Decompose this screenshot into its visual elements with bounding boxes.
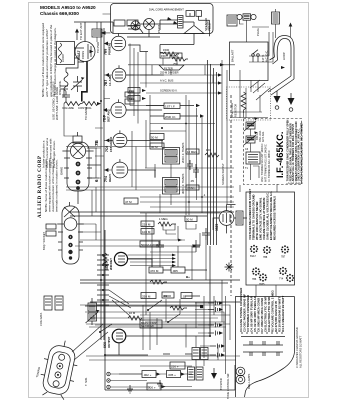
loop leads xyxy=(268,57,294,95)
left edge drop wire xyxy=(64,104,73,137)
svg-text:GANG CLOSED. ALL VOLTAGES D.C.: GANG CLOSED. ALL VOLTAGES D.C. xyxy=(266,192,270,240)
boxed label .01 xyxy=(162,292,174,298)
avc long wires xyxy=(66,187,234,190)
electrolytic capacitor C8 xyxy=(208,301,218,306)
tube V8 6K6 output (bold ring) xyxy=(112,329,126,343)
note paragraph (rotated service note, top left) xyxy=(41,23,57,97)
socket voltage chart box xyxy=(246,192,295,285)
tube base layout (top view, left) xyxy=(60,132,94,204)
svg-text:PILOT: PILOT xyxy=(157,25,161,33)
cathode thick wire xyxy=(81,61,88,102)
ballast block xyxy=(236,211,243,225)
left label box SEC xyxy=(128,96,140,102)
svg-text:6. ROCK GANG WHILE ADJUSTING O: 6. ROCK GANG WHILE ADJUSTING OSC. TRIMME… xyxy=(300,123,303,184)
tube V4 7B6 det xyxy=(111,102,126,117)
IF transformer T3 xyxy=(163,178,180,195)
line switch cluster xyxy=(252,54,255,57)
vertical drops candohm xyxy=(146,52,213,88)
output transformer bottom xyxy=(192,348,200,360)
electrolytic capacitor C9 xyxy=(208,307,218,312)
svg-text:220 M: 220 M xyxy=(142,223,151,227)
to loop arrow xyxy=(290,26,292,37)
svg-text:.005 +: .005 + xyxy=(168,373,177,377)
svg-text:7B8: 7B8 xyxy=(263,256,268,259)
line cord plug assembly xyxy=(237,14,242,19)
capacitor C13 xyxy=(192,240,200,252)
boxed label grid resistor xyxy=(186,149,199,154)
resistor zigzag top row xyxy=(158,222,176,226)
trimmer symbols in dashed box xyxy=(246,122,255,129)
loop lead extensions xyxy=(250,80,270,100)
B+ bus pair left xyxy=(101,22,104,340)
svg-text:BALLAST: BALLAST xyxy=(231,49,235,62)
output coupling boxes bottom middle xyxy=(142,371,156,378)
loop arrow marker xyxy=(281,66,285,69)
plug P1 xyxy=(276,91,278,96)
svg-text:ANT. ADJ.: ANT. ADJ. xyxy=(262,131,265,142)
cap feed bus xyxy=(195,296,226,374)
trimmer caption text xyxy=(261,143,271,182)
dashed box inner notes xyxy=(256,130,265,142)
svg-text:LOOP: LOOP xyxy=(282,52,286,60)
screen bypass capacitor xyxy=(193,164,199,178)
svg-text:MODELS A9510 to A9520: MODELS A9510 to A9520 xyxy=(40,5,96,10)
svg-text:RESISTOR: RESISTOR xyxy=(234,104,238,117)
tube V7 6SQ7 (bold ring) xyxy=(114,252,127,265)
terminal strip ticks on bus xyxy=(97,255,109,305)
ac line box xyxy=(227,15,237,26)
symbol marks row xyxy=(241,333,285,337)
boxed label 470K xyxy=(149,267,163,273)
boxed label 50M mid xyxy=(185,216,197,222)
osc trimmer C3 xyxy=(60,86,68,97)
boxed label 1ST IF xyxy=(164,103,180,109)
speaker cone xyxy=(184,26,204,34)
ladder drop wires xyxy=(126,44,164,124)
tube row feeds xyxy=(104,44,113,171)
boxed label 30M xyxy=(150,143,164,149)
svg-text:TONE CONTROL SW.: TONE CONTROL SW. xyxy=(226,373,230,399)
long feed wire y65 xyxy=(128,64,235,66)
svg-text:R4 3.3 MEGOHM 1/2 WATT: R4 3.3 MEGOHM 1/2 WATT xyxy=(281,296,285,332)
svg-text:WITH 1000 OHM/VOLT METER: WITH 1000 OHM/VOLT METER xyxy=(255,201,259,240)
svg-text:terminals numbered in rotation: terminals numbered in rotation shown. xyxy=(55,159,59,212)
divider label box 1M xyxy=(172,53,182,58)
svg-text:.005: .005 xyxy=(172,269,178,273)
drive shaft label boxes xyxy=(114,20,125,26)
output socket pins xyxy=(107,372,110,375)
audio row wires xyxy=(128,259,207,296)
tube V3 7B7 IF xyxy=(112,68,126,82)
svg-text:DIAL CORD ARRANGEMENT: DIAL CORD ARRANGEMENT xyxy=(149,8,184,12)
heater bus quad right xyxy=(208,60,217,245)
vertical wires mid xyxy=(146,213,206,280)
svg-text:7B: 7B xyxy=(94,139,99,146)
electrolytic capacitor C12b xyxy=(210,344,220,349)
grid row wires xyxy=(126,110,163,177)
diagonal jumper wires xyxy=(109,290,131,316)
arrow marker V5 xyxy=(105,138,109,142)
small trimmer stack above condenser xyxy=(86,298,100,325)
svg-text:COIL DATA: COIL DATA xyxy=(39,313,43,326)
vertical wires if section xyxy=(146,95,202,215)
plug P2 xyxy=(290,93,292,98)
boxed label mid left xyxy=(124,198,138,204)
osc trimmer box top xyxy=(92,29,102,37)
svg-text:7B6: 7B6 xyxy=(252,278,257,281)
svg-text:1 M: 1 M xyxy=(173,54,178,58)
boxed label 220M top xyxy=(141,221,154,227)
svg-text:10 M: 10 M xyxy=(129,311,136,315)
svg-text:C INDICATES CHASSIS GROUND: C INDICATES CHASSIS GROUND xyxy=(295,327,299,368)
nested feedback wire rectangles xyxy=(80,305,230,345)
svg-text:LOOP: LOOP xyxy=(61,54,65,62)
svg-text:B+: B+ xyxy=(186,275,190,279)
svg-text:250 +: 250 + xyxy=(171,365,179,369)
switch box S2 xyxy=(196,11,202,17)
ground symbols bottom xyxy=(127,385,133,393)
svg-text:T. SW.: T. SW. xyxy=(84,377,88,386)
grid arrow inside tube xyxy=(90,50,94,54)
IF transformer T2 xyxy=(163,148,180,165)
volume control R1 (zigzag pair) xyxy=(64,102,82,106)
svg-text:100 M: 100 M xyxy=(142,230,151,234)
boxed label avc resistor xyxy=(186,185,199,190)
arrow to converter xyxy=(101,31,106,35)
socket rosettes row1 xyxy=(250,245,289,254)
alignment numbered list xyxy=(287,119,304,184)
long horizontal wires detector row xyxy=(80,280,240,283)
antenna coil box xyxy=(272,12,280,24)
switch box S1 xyxy=(186,11,195,17)
avc capacitor xyxy=(187,160,193,170)
black square junction xyxy=(200,305,203,308)
dotted power pack box xyxy=(227,87,271,120)
coupling capacitor C12 xyxy=(156,240,164,252)
component cluster between V4 V3 xyxy=(125,92,134,97)
socket unit wires to bus xyxy=(87,148,101,216)
wire rows y197-213 xyxy=(140,197,234,213)
star junction symbol xyxy=(225,263,234,272)
power supply box upper right xyxy=(230,42,269,81)
arrowheads on IF rows xyxy=(196,104,200,107)
phase inverter resistor xyxy=(128,316,142,320)
tuning condenser unit (bottom left) xyxy=(32,336,82,400)
arrow marker V6 xyxy=(104,168,108,172)
wire rows y240 246 xyxy=(140,240,200,252)
gang tuning capacitor C1 xyxy=(71,76,82,92)
svg-text:6: 6 xyxy=(94,179,99,182)
svg-text:47 M: 47 M xyxy=(125,200,132,204)
left label box PRI xyxy=(128,88,140,94)
svg-text:250 M: 250 M xyxy=(142,295,151,299)
resistor R7 zigzag xyxy=(150,280,167,284)
electrolytic capacitor C13b xyxy=(210,353,220,358)
arrow on feed wire xyxy=(220,63,225,66)
dial lamps pair xyxy=(236,367,245,376)
detector long wires xyxy=(70,212,234,216)
parts list box with curve xyxy=(236,297,295,398)
right side vertical drops xyxy=(222,60,276,296)
svg-text:1 MEG: 1 MEG xyxy=(159,217,168,221)
svg-text:.002 +: .002 + xyxy=(143,373,152,377)
loop antenna (rear view) xyxy=(274,36,294,80)
svg-text:2ND I.F. TRANS: 2ND I.F. TRANS xyxy=(181,143,185,163)
left arrows xyxy=(142,89,146,92)
antenna lead arrow TO ANT xyxy=(76,31,78,40)
wire row y124 xyxy=(150,123,215,125)
svg-text:1ST AUDIO: 1ST AUDIO xyxy=(109,136,113,152)
svg-text:470 M: 470 M xyxy=(150,269,159,273)
oscillator coil L2 xyxy=(64,62,78,91)
wire row y131 xyxy=(150,130,186,132)
rectifier tube V9 35Z5 xyxy=(219,211,234,226)
svg-text:POWER: POWER xyxy=(108,43,112,55)
svg-text:3 MEG: 3 MEG xyxy=(187,186,196,190)
arrowheads mid rows xyxy=(178,239,182,242)
quad arrow rows xyxy=(128,255,172,266)
padder capacitors group xyxy=(243,341,283,356)
note paragraph 1b (rotated, mid left) xyxy=(42,138,57,168)
boxed label .005 xyxy=(171,267,185,273)
electrolytic capacitor C10 xyxy=(208,323,218,328)
svg-text:2ND I.F.: 2ND I.F. xyxy=(165,115,176,119)
speaker plug bottom xyxy=(213,368,215,373)
cathode resistor zigzag xyxy=(205,153,219,157)
svg-text:7Y4: 7Y4 xyxy=(279,278,284,281)
svg-text:50 M: 50 M xyxy=(186,218,193,222)
svg-text:500 +: 500 + xyxy=(148,386,156,390)
svg-text:TO EXT ANT: TO EXT ANT xyxy=(79,22,83,40)
svg-text:3RD I.F. TRANS: 3RD I.F. TRANS xyxy=(181,174,185,194)
switch arm diagonal xyxy=(148,300,162,310)
feed row y83 xyxy=(140,82,218,84)
gang pointer lines xyxy=(72,324,108,360)
padder capacitor C2 xyxy=(62,91,70,101)
arrow marker V4 xyxy=(103,108,107,112)
trimmer hatch marks xyxy=(247,124,254,140)
svg-text:ALLIED RADIO CORP: ALLIED RADIO CORP xyxy=(38,155,43,218)
socket2 to bus wire xyxy=(79,224,101,240)
staple wire u2 xyxy=(186,222,196,229)
svg-text:SEC.: SEC. xyxy=(129,97,136,101)
grid zigzag vertical xyxy=(103,253,107,267)
if vertical drops left xyxy=(132,131,136,190)
trimmer connecting wires xyxy=(251,129,278,192)
electrolytic capacitor C11 xyxy=(208,331,218,336)
tone choke pair xyxy=(188,367,195,380)
svg-text:TO GANG: TO GANG xyxy=(84,107,88,120)
tube V1 6SA7 converter xyxy=(75,42,95,62)
svg-text:250 M DIVIDER: 250 M DIVIDER xyxy=(160,71,179,75)
arrow marker V2 xyxy=(104,42,108,46)
svg-text:250: 250 xyxy=(173,62,178,66)
svg-text:150: 150 xyxy=(161,54,166,58)
tone capacitor C14 xyxy=(202,228,210,240)
wires lower mid xyxy=(140,280,230,328)
svg-text:50 M: 50 M xyxy=(151,136,158,140)
svg-text:SCREEN 90 V.: SCREEN 90 V. xyxy=(160,89,178,93)
output transformer T4 xyxy=(178,16,184,29)
ac cord wires xyxy=(249,27,273,62)
resistor R8 zigzag xyxy=(170,306,187,310)
socket rosettes row2 xyxy=(252,267,294,282)
svg-text:SCREEN SUPPLY: SCREEN SUPPLY xyxy=(221,163,225,185)
svg-text:MEASURED ACROSS TERMINALS: MEASURED ACROSS TERMINALS xyxy=(273,196,277,240)
svg-text:6SQ7 SOCKET: 6SQ7 SOCKET xyxy=(42,232,46,250)
svg-text:PRI.: PRI. xyxy=(129,89,135,93)
B+ return bottom xyxy=(105,230,235,390)
tone switch diagonal 2 xyxy=(168,314,180,322)
loop antenna L1 xyxy=(57,42,75,65)
junction dots if xyxy=(185,123,203,203)
svg-text:WITH ANT. LEAD WIRE: WITH ANT. LEAD WIRE xyxy=(55,87,59,120)
tube V6 7Y4 xyxy=(112,162,128,178)
switch arm bottom xyxy=(100,324,112,332)
svg-text:TO SPKR: TO SPKR xyxy=(219,378,223,390)
dropping resistor vertical zigzag xyxy=(241,92,246,113)
bottom boxes row2 xyxy=(170,362,185,369)
svg-text:35Z5: 35Z5 xyxy=(259,283,265,286)
dashed alignment boundary xyxy=(230,95,232,296)
junction dots xyxy=(100,100,211,356)
svg-text:DET AVC: DET AVC xyxy=(107,109,111,122)
svg-text:35Z5: 35Z5 xyxy=(215,224,219,231)
svg-text:500 M AUDIO: 500 M AUDIO xyxy=(141,243,159,247)
svg-text:1500: 1500 xyxy=(163,48,170,52)
tube V2 7B8 xyxy=(111,36,125,50)
boxed label osc trans xyxy=(150,134,164,140)
svg-text:TERMINALS TO CHASSIS GROUND: TERMINALS TO CHASSIS GROUND xyxy=(252,194,256,240)
boxed label 2ND IF xyxy=(164,114,180,120)
parts label boxes left of unit xyxy=(46,224,56,229)
svg-text:LINE CORD: LINE CORD xyxy=(230,103,234,117)
bass compensation box xyxy=(140,320,162,328)
oscillator coil detail chart xyxy=(39,296,63,326)
pilot lamp xyxy=(144,19,155,30)
idler pulley arrows xyxy=(167,17,172,21)
staircase wire xyxy=(128,45,148,52)
svg-text:1ST I.F.: 1ST I.F. xyxy=(165,105,175,109)
svg-text:OUTPUT: OUTPUT xyxy=(107,336,111,348)
svg-text:TO PWR: TO PWR xyxy=(96,42,100,53)
candohm filter block xyxy=(159,65,184,70)
terminal strip dots xyxy=(102,254,104,301)
dial cord arrangement box xyxy=(111,4,214,34)
dial drive pulley xyxy=(131,21,140,30)
svg-text:FILTER: FILTER xyxy=(164,67,173,71)
svg-text:30 M: 30 M xyxy=(151,145,158,149)
horizontal feed wires IF rows xyxy=(126,75,198,116)
svg-text:ALL RESISTORS 1/2 WATT: ALL RESISTORS 1/2 WATT xyxy=(299,335,303,368)
svg-text:LINE VOLTAGE 117V. NO SIGNAL: LINE VOLTAGE 117V. NO SIGNAL xyxy=(259,197,263,240)
arrow marker V3 xyxy=(105,73,109,77)
output row wires xyxy=(119,246,211,355)
svg-text:7B7: 7B7 xyxy=(281,256,286,259)
svg-text:I.F. TRIMMERS ADJ. 465KC: I.F. TRIMMERS ADJ. 465KC xyxy=(268,150,271,182)
note paragraph 2 (rotated, mid left) xyxy=(44,158,59,212)
wire row y168 xyxy=(145,167,234,169)
wire loop to tube xyxy=(74,48,84,62)
boxed label 500M b xyxy=(181,293,192,299)
svg-text:VOLTAGES MEASURED FROM SOCKET: VOLTAGES MEASURED FROM SOCKET xyxy=(248,189,252,240)
tube V5 7C6 xyxy=(113,133,127,147)
svg-text:10 MEG: 10 MEG xyxy=(187,150,197,154)
filter resistor R12 xyxy=(163,52,179,56)
svg-text:GANG: GANG xyxy=(60,167,64,175)
divider label box 150 xyxy=(160,53,170,58)
boxed label 250M xyxy=(141,293,156,299)
wires around rectifier xyxy=(213,205,247,234)
wires bottom mid xyxy=(86,324,240,387)
left mid connection wires xyxy=(87,90,110,178)
dashed IF note box xyxy=(244,119,302,185)
feed row y75 xyxy=(140,74,218,76)
svg-text:.05: .05 xyxy=(190,179,194,183)
wires top mid xyxy=(127,20,194,37)
wire from tube top xyxy=(74,22,113,42)
staple wire u1 xyxy=(163,224,176,234)
svg-text:.02: .02 xyxy=(182,295,187,299)
svg-text:CONV: CONV xyxy=(81,51,85,59)
boxed label 100M xyxy=(141,229,154,235)
svg-text:A.V.C. BUS: A.V.C. BUS xyxy=(160,79,174,83)
power pack wires xyxy=(230,80,268,118)
tube base layout 2 (lower left) xyxy=(57,202,84,264)
svg-text:RECT.: RECT. xyxy=(108,173,112,182)
filter resistor R13 xyxy=(172,57,188,61)
svg-text:EXCEPT FILAMENTS WHICH ARE A.C: EXCEPT FILAMENTS WHICH ARE A.C. xyxy=(269,191,273,240)
svg-text:I.F.-465KC.: I.F.-465KC. xyxy=(275,132,285,178)
svg-text:PLUG: PLUG xyxy=(256,28,260,36)
svg-text:VOLUME CONTROL AT MINIMUM: VOLUME CONTROL AT MINIMUM xyxy=(262,197,266,240)
svg-text:6SA7: 6SA7 xyxy=(250,255,257,258)
svg-text:DIAL LAMPS: DIAL LAMPS xyxy=(247,374,251,389)
svg-text:Chassis 669,9300: Chassis 669,9300 xyxy=(40,11,79,16)
svg-text:2ND DET: 2ND DET xyxy=(109,258,113,270)
audio row label box xyxy=(140,241,159,247)
feed row y93 xyxy=(146,92,218,94)
